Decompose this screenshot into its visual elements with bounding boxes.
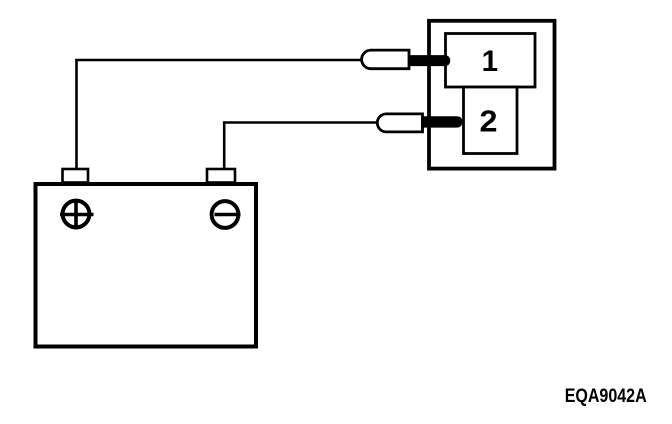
bullet terminal on wire 1 — [362, 50, 409, 69]
pin number 2 label — [480, 103, 498, 138]
figure reference label EQA9042A — [565, 386, 647, 407]
wire from battery positive post to terminal of pin 1 (horizontal segment) — [75, 59, 362, 62]
pin 2 contact stub — [421, 116, 462, 127]
battery negative post — [207, 169, 235, 183]
svg-text:1: 1 — [482, 45, 498, 78]
pin number 1 label — [482, 45, 498, 78]
battery positive terminal symbol — [60, 199, 94, 230]
pin 1 contact stub — [408, 55, 450, 66]
svg-text:2: 2 — [480, 103, 498, 138]
svg-text:EQA9042A: EQA9042A — [565, 386, 647, 407]
pin 2 cavity box — [464, 87, 518, 154]
wire from battery negative post to terminal of pin 2 (vertical segment) — [223, 123, 226, 170]
battery positive post — [63, 169, 89, 183]
bullet terminal on wire 2 — [377, 114, 422, 132]
connector housing outer box — [429, 21, 555, 169]
battery B1 body — [36, 184, 257, 347]
pin 1 cavity box — [446, 34, 536, 88]
battery negative terminal symbol — [212, 201, 241, 228]
wire from battery negative post to terminal of pin 2 (horizontal segment) — [223, 121, 377, 124]
wire from battery positive post to terminal of pin 1 (vertical segment) — [75, 60, 78, 169]
